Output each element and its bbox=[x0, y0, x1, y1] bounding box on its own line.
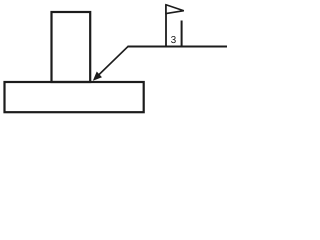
weld size text "3" bbox=[171, 36, 176, 43]
arrowhead at T-joint bbox=[94, 72, 102, 80]
weld symbol vertical bar bbox=[181, 21, 183, 47]
reference line bbox=[128, 45, 228, 47]
field weld flag bbox=[166, 5, 184, 14]
base plate (horizontal member of T-joint) bbox=[5, 82, 144, 112]
leader line (arrow shaft from joint to reference line bend) bbox=[96, 47, 129, 79]
field weld flag pole bbox=[165, 5, 167, 47]
upright plate (vertical member of T-joint) bbox=[52, 12, 91, 82]
